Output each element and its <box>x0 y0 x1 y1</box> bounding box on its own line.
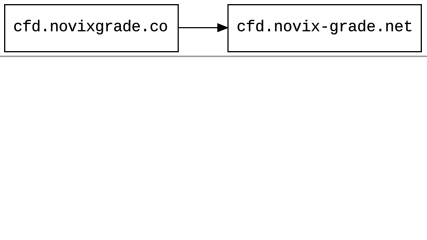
label text: cfd.novix-grade.net <box>238 20 412 35</box>
node box cfd.novixgrade.co <box>5 5 179 52</box>
arrowhead <box>218 24 228 32</box>
node box cfd.novix-grade.net <box>228 5 421 52</box>
wire edge <box>179 27 218 29</box>
label text: cfd.novixgrade.co <box>14 20 167 35</box>
separator line <box>0 56 427 58</box>
